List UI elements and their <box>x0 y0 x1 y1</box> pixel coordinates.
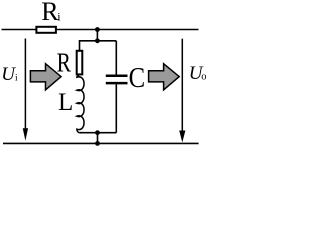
wire capacitor bottom lead <box>115 84 117 132</box>
Uo arrow line <box>181 39 183 131</box>
capacitor C top plate <box>106 74 128 77</box>
Ui arrowhead <box>23 128 28 140</box>
node bottom junction <box>95 141 100 146</box>
svg-text:i: i <box>15 74 18 84</box>
node bracket bottom junction <box>95 130 100 135</box>
svg-text:o: o <box>201 72 206 83</box>
wire junction link top <box>96 30 98 41</box>
input block arrow <box>30 64 61 90</box>
wire capacitor top lead <box>115 41 117 75</box>
inductor L <box>77 75 84 133</box>
resistor Ri <box>36 27 56 33</box>
node bracket top junction <box>95 38 100 43</box>
wire junction link bottom <box>97 133 99 144</box>
wire bracket top <box>80 40 117 42</box>
wire into resistor R <box>79 40 81 51</box>
svg-text:L: L <box>58 89 73 116</box>
resistor R <box>77 51 83 75</box>
Ui arrow line <box>24 39 26 131</box>
wire bottom rail <box>3 142 199 144</box>
wire top rail <box>2 29 199 31</box>
svg-text:U: U <box>1 64 16 85</box>
svg-text:C: C <box>129 63 146 94</box>
output block arrow <box>149 64 180 90</box>
svg-text:R: R <box>57 48 71 78</box>
node top junction <box>95 27 100 32</box>
capacitor C bottom plate <box>106 82 128 85</box>
wire bracket bottom <box>80 132 117 134</box>
Uo arrowhead <box>179 131 185 143</box>
